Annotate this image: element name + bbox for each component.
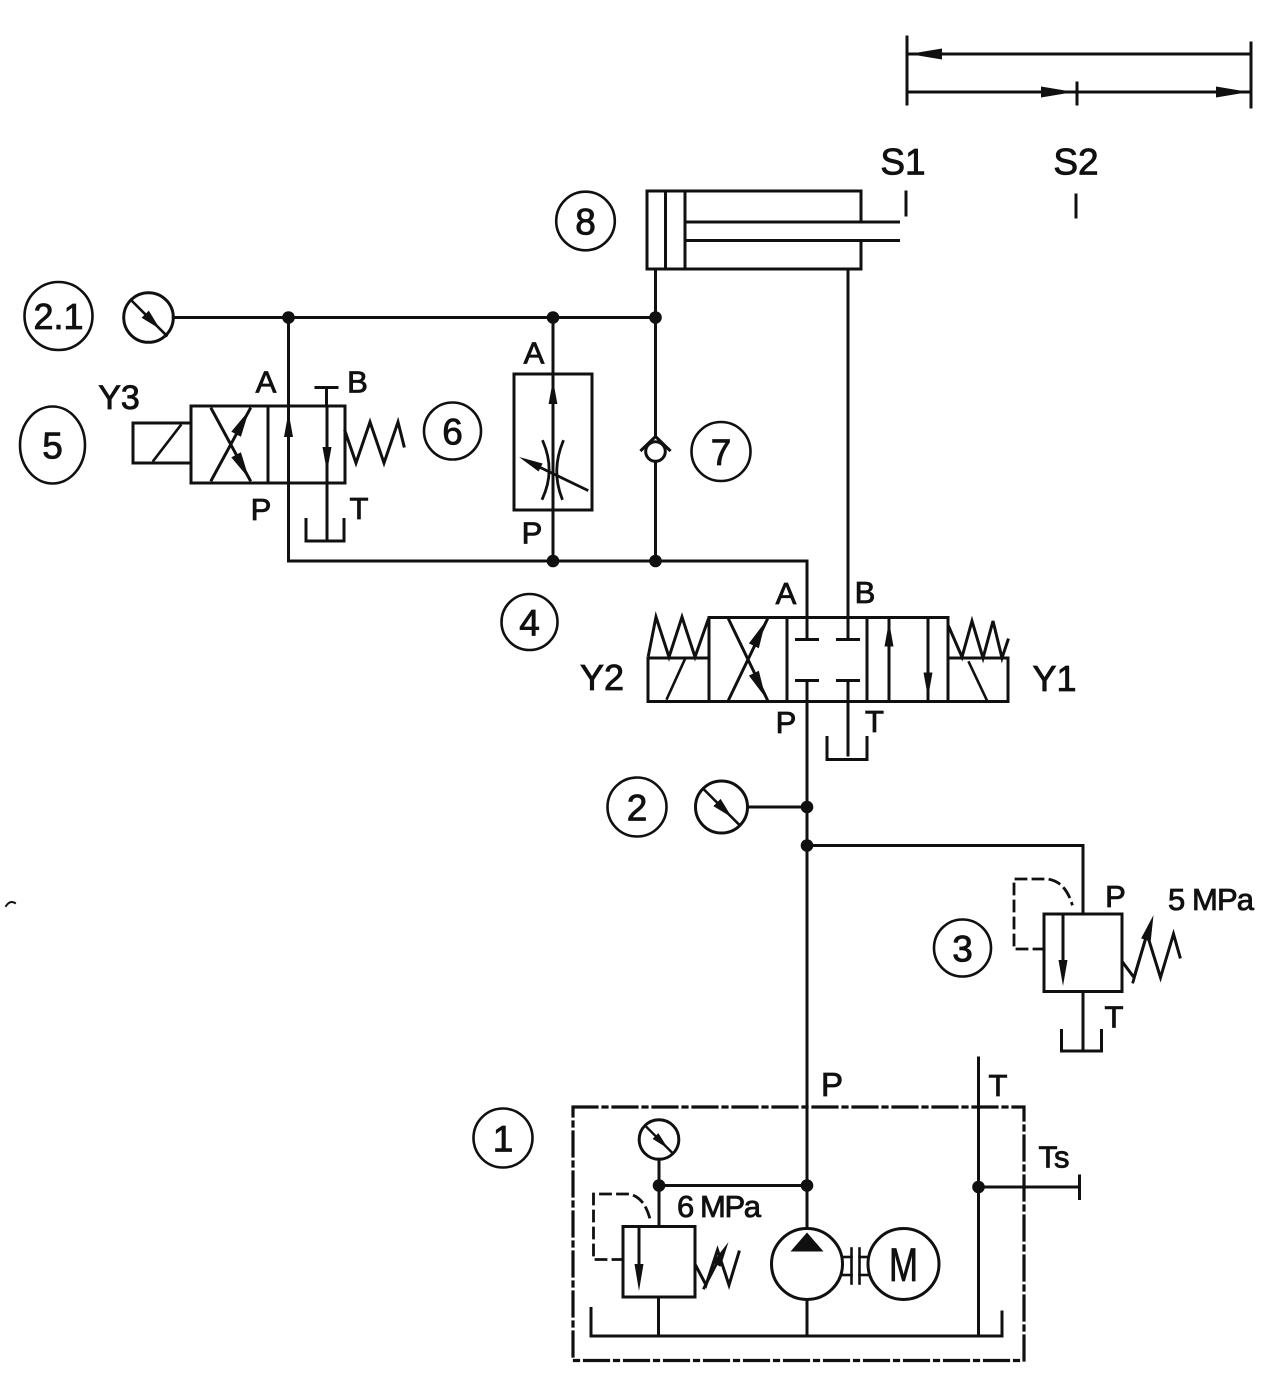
balloon 2.1 [25, 282, 93, 350]
svg-text:2.1: 2.1 [33, 296, 83, 337]
relief valve 3 body [1044, 914, 1122, 992]
flow control valve 6 adjustment arrow [519, 457, 587, 490]
wire pump to tank [806, 1300, 809, 1337]
svg-text:S1: S1 [880, 142, 925, 183]
wire A-rail down to valve 5 port A [287, 318, 290, 407]
wire gauge 2 to P line [748, 806, 808, 809]
balloon 4 [502, 594, 558, 650]
svg-text:M: M [889, 1238, 918, 1291]
valve 5 blocked port B symbol [316, 388, 337, 407]
svg-text:5 MPa: 5 MPa [1168, 882, 1255, 917]
relief valve 6MPa adjustment arrow [704, 1242, 729, 1288]
svg-text:6: 6 [442, 412, 463, 453]
valve 5 tank symbol [306, 520, 344, 542]
svg-text:S2: S2 [1053, 142, 1098, 183]
svg-text:T: T [1105, 1000, 1124, 1035]
power unit gauge [639, 1120, 679, 1160]
wire gauge branch to P line [659, 1184, 807, 1187]
valve 4 left spring [649, 617, 709, 657]
wire cylinder rod port down to valve 4 port B [847, 269, 850, 618]
valve 4 centre position blocked ports [797, 618, 859, 702]
svg-text:T: T [350, 491, 369, 526]
svg-text:5: 5 [42, 426, 63, 467]
wire valve 4 port P down to pump [806, 702, 809, 1229]
svg-text:P: P [776, 705, 797, 740]
wire check valve 7 upper [654, 318, 657, 437]
valve 4 right position flow paths [885, 618, 933, 702]
svg-text:A: A [256, 365, 277, 400]
svg-text:8: 8 [575, 202, 596, 243]
pump [772, 1229, 843, 1300]
valve 4 body (4/3 directional valve) [709, 618, 948, 702]
relief valve 6MPa flow arrow [635, 1227, 644, 1292]
valve 5 solenoid coil Y3 [133, 423, 191, 463]
relief valve 6MPa spring [696, 1250, 739, 1285]
junction node on P line in power unit [801, 1179, 814, 1192]
svg-text:T: T [989, 1068, 1008, 1103]
pressure gauge 2.1 [124, 293, 174, 343]
junction node on A-rail at check valve 7 [649, 311, 662, 324]
sensor S1 mark [905, 192, 908, 215]
junction node on A-rail at valve 5 [282, 311, 295, 324]
pressure gauge 2 [696, 781, 748, 833]
balloon 1 [474, 1109, 533, 1168]
wire cylinder cap port down [654, 269, 657, 318]
junction node branch to valve 3 [801, 839, 814, 852]
svg-text:3: 3 [952, 929, 973, 970]
valve 4 left position crossed arrows [729, 620, 767, 699]
power unit tank line [591, 1309, 1002, 1337]
Ts port tick [1078, 1176, 1081, 1199]
flow control valve 6 restrictor arcs [543, 442, 564, 499]
wire branch to relief valve 3 [807, 846, 1083, 915]
coupling pump to motor [843, 1249, 869, 1284]
svg-text:2: 2 [627, 788, 648, 829]
balloon 3 [934, 920, 991, 977]
valve 5 body (3/2 directional valve) [191, 406, 345, 483]
svg-text:P: P [522, 516, 543, 551]
valve 4 solenoid coil Y2 [648, 658, 709, 702]
junction node on P-rail at flow valve 6 [547, 555, 560, 568]
junction node on P-rail at check valve 7 [649, 555, 662, 568]
relief valve 3 adjustment arrow [1133, 915, 1154, 982]
valve 5 right position flow paths [284, 406, 332, 483]
sensor S2 mark [1075, 195, 1078, 217]
check valve 7 [642, 437, 670, 462]
svg-text:4: 4 [519, 603, 540, 644]
wire valve 4 port T to tank [847, 702, 850, 756]
valve 4 right spring [949, 621, 1009, 658]
svg-text:P: P [821, 1066, 843, 1103]
valve 4 tank symbol [827, 738, 867, 760]
svg-text:7: 7 [711, 432, 732, 473]
power unit boundary (dash-dot) [573, 1107, 1024, 1361]
electric motor M [868, 1229, 939, 1300]
valve 5 return spring [345, 422, 404, 463]
junction node below power unit gauge [653, 1179, 666, 1192]
svg-text:A: A [776, 576, 797, 611]
svg-text:Y1: Y1 [1032, 658, 1076, 699]
balloon 2 [608, 778, 667, 837]
wire A-rail from gauge 2.1 to cylinder line [173, 316, 655, 319]
stroke dimension indicator [907, 37, 1251, 107]
valve 4 solenoid coil Y1 [948, 658, 1008, 702]
svg-text:Y3: Y3 [98, 379, 140, 417]
balloon 7 [692, 422, 751, 481]
relief valve 3 tank symbol [1062, 1031, 1102, 1052]
junction node gauge 2 [801, 801, 814, 814]
flow control valve 6 flow arrow [549, 380, 558, 404]
relief valve 6MPa pilot line (dashed) [594, 1194, 651, 1260]
svg-text:1: 1 [493, 1119, 514, 1160]
relief valve 6MPa body [623, 1227, 695, 1298]
valve 5 left position crossed arrows [212, 409, 251, 480]
wire relief valve 6MPa to tank [657, 1297, 660, 1336]
svg-text:P: P [1105, 879, 1126, 914]
wire Ts branch [979, 1186, 1080, 1189]
svg-text:A: A [524, 336, 545, 371]
svg-text:P: P [251, 492, 272, 527]
wire valve 5 port T to tank [326, 483, 329, 539]
balloon 6 [424, 403, 481, 460]
wire through flow valve 6 [552, 318, 555, 562]
stray mark [6, 902, 15, 906]
cylinder 8 [647, 191, 899, 269]
svg-text:B: B [855, 575, 876, 610]
junction node on A-rail at flow valve 6 [547, 311, 560, 324]
flow control valve 6 body [514, 374, 592, 510]
svg-text:Ts: Ts [1039, 1140, 1070, 1175]
svg-text:6 MPa: 6 MPa [677, 1189, 762, 1224]
relief valve 3 spring [1123, 934, 1181, 978]
wire P-rail from valve 5 port P to valve 4 port A [289, 483, 808, 618]
svg-text:T: T [865, 704, 884, 739]
balloon 8 [556, 192, 615, 251]
wire gauge down to relief valve 6MPa [658, 1159, 661, 1226]
svg-text:Y2: Y2 [580, 657, 624, 698]
relief valve 3 flow arrow [1059, 914, 1068, 986]
balloon 5 [20, 407, 85, 484]
relief valve 3 pilot line (dashed) [1014, 879, 1072, 949]
wire relief valve 3 to tank [1082, 992, 1085, 1050]
svg-text:B: B [347, 365, 368, 400]
wire tank return T [977, 1058, 980, 1336]
wire check valve 7 lower [654, 462, 657, 562]
junction node on T line [972, 1181, 985, 1194]
